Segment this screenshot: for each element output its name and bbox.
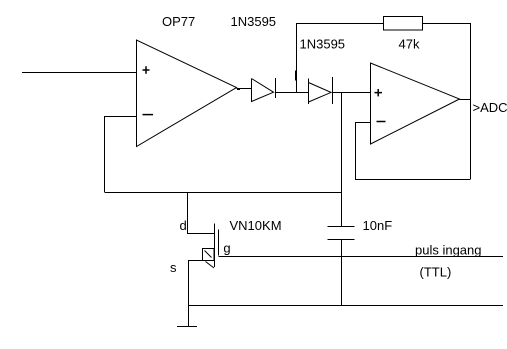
wire blob artifact at U1 output [237, 88, 240, 90]
diode D1 cathode bar [275, 78, 277, 98]
svg-text:10nF: 10nF [363, 218, 393, 233]
resistor R1 47k body [384, 17, 423, 31]
wire feedback into U1 inverting input [105, 117, 137, 193]
transistor Q1 lower diagonal [206, 262, 215, 269]
svg-text:puls ingang: puls ingang [415, 243, 482, 258]
wire drain stub from feedback line [188, 193, 215, 234]
wire U2 output to ADC node [460, 99, 471, 101]
wire source [189, 261, 215, 327]
capacitor C1 10nF plates [328, 227, 355, 240]
wire node up to feedback resistor [297, 24, 384, 93]
diode D2 cathode bar [332, 77, 334, 104]
svg-text:d: d [180, 218, 187, 233]
op-amp U1 OP77 triangle [137, 40, 237, 147]
svg-text:s: s [170, 260, 177, 275]
wire node down to capacitor [341, 93, 343, 227]
op-amp U2 plus input symbol [375, 89, 383, 96]
op-amp U2 minus input symbol [377, 121, 386, 123]
wire D1 cathode to node [276, 92, 309, 94]
wire input to op-amp U1 non-inverting [22, 72, 136, 74]
wire resistor to right vertical [423, 24, 471, 180]
op-amp U1 minus input symbol [143, 114, 154, 116]
svg-text:(TTL): (TTL) [420, 264, 452, 279]
wire U2 inverting feedback loop [356, 123, 471, 180]
svg-text:>ADC: >ADC [473, 100, 507, 115]
wire doubled segment artifact [295, 71, 297, 81]
transistor Q1 gate bar [218, 230, 220, 256]
svg-text:g: g [223, 241, 230, 256]
ground [177, 326, 197, 328]
wire gate line puls ingang [219, 256, 504, 258]
op-amp U1 plus input symbol [143, 66, 150, 73]
wire capacitor bottom down [341, 240, 343, 306]
op-amp U2 triangle [371, 63, 460, 144]
wire bottom rail [189, 305, 504, 307]
wire feedback bottom horizontal [105, 192, 342, 194]
diode D1 1N3595 [252, 79, 274, 102]
transistor Q1 channel bar [214, 224, 216, 268]
wire D2 cathode to U2 plus input [333, 92, 371, 94]
svg-text:VN10KM: VN10KM [230, 218, 282, 233]
transistor Q1 arrow diagonal [205, 251, 212, 258]
svg-text:47k: 47k [399, 36, 420, 51]
svg-text:1N3595: 1N3595 [231, 14, 277, 29]
wire U1 output [237, 88, 252, 90]
diode D2 1N3595 [308, 79, 310, 105]
transistor Q1 arrow box [203, 249, 215, 261]
svg-text:OP77: OP77 [162, 14, 195, 29]
svg-text:1N3595: 1N3595 [300, 36, 346, 51]
